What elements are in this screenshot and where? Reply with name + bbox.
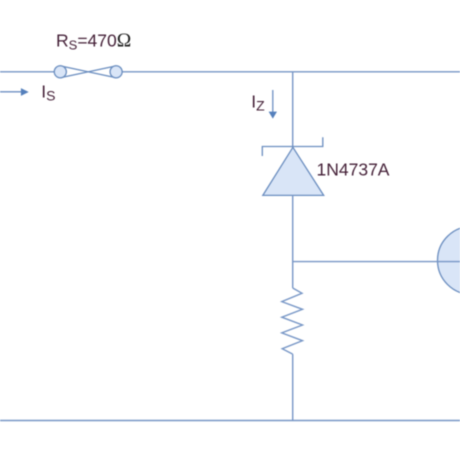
- wire top rail left segment: [0, 71, 56, 73]
- resistor RS left terminal circle: [54, 66, 66, 78]
- svg-text:IS: IS: [41, 82, 55, 104]
- zener diode D1 body: [263, 147, 324, 195]
- svg-text:IZ: IZ: [251, 91, 265, 113]
- wire top rail right segment: [122, 71, 460, 73]
- resistor RS crossed lines: [60, 66, 116, 78]
- wire bottom rail: [0, 420, 460, 422]
- wire zener cathode down to node: [292, 195, 294, 288]
- zener diode D1 cathode bar: [262, 137, 323, 156]
- transistor Q1 body partial circle: [438, 226, 460, 294]
- resistor RS right terminal circle: [110, 66, 122, 78]
- wire base lead from node to transistor: [293, 261, 460, 263]
- wire vertical from top rail to zener anode: [292, 72, 294, 196]
- svg-text:1N4737A: 1N4737A: [317, 160, 390, 180]
- current arrow IZ: [269, 90, 277, 119]
- resistor R2 zigzag: [282, 288, 303, 354]
- svg-text:RS=470Ω: RS=470Ω: [56, 31, 131, 53]
- current arrow IS: [0, 88, 29, 96]
- wire resistor bottom to bottom rail: [292, 354, 294, 420]
